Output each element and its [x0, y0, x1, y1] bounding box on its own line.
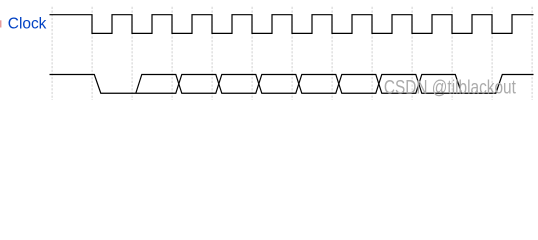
- Clock waveform (signal 1): [50, 15, 534, 34]
- data bus waveform rail B (signal 2: 1->0 then hexagon edges): [50, 75, 462, 94]
- svg-text:CSDN @tilblackout: CSDN @tilblackout: [384, 77, 517, 98]
- data bus waveform rail A (signal 2: hexagon edges then 0->1): [136, 75, 534, 94]
- red edge artifact: [0, 20, 2, 27]
- cycle gridlines: [52, 7, 532, 100]
- svg-text:Clock: Clock: [8, 16, 48, 33]
